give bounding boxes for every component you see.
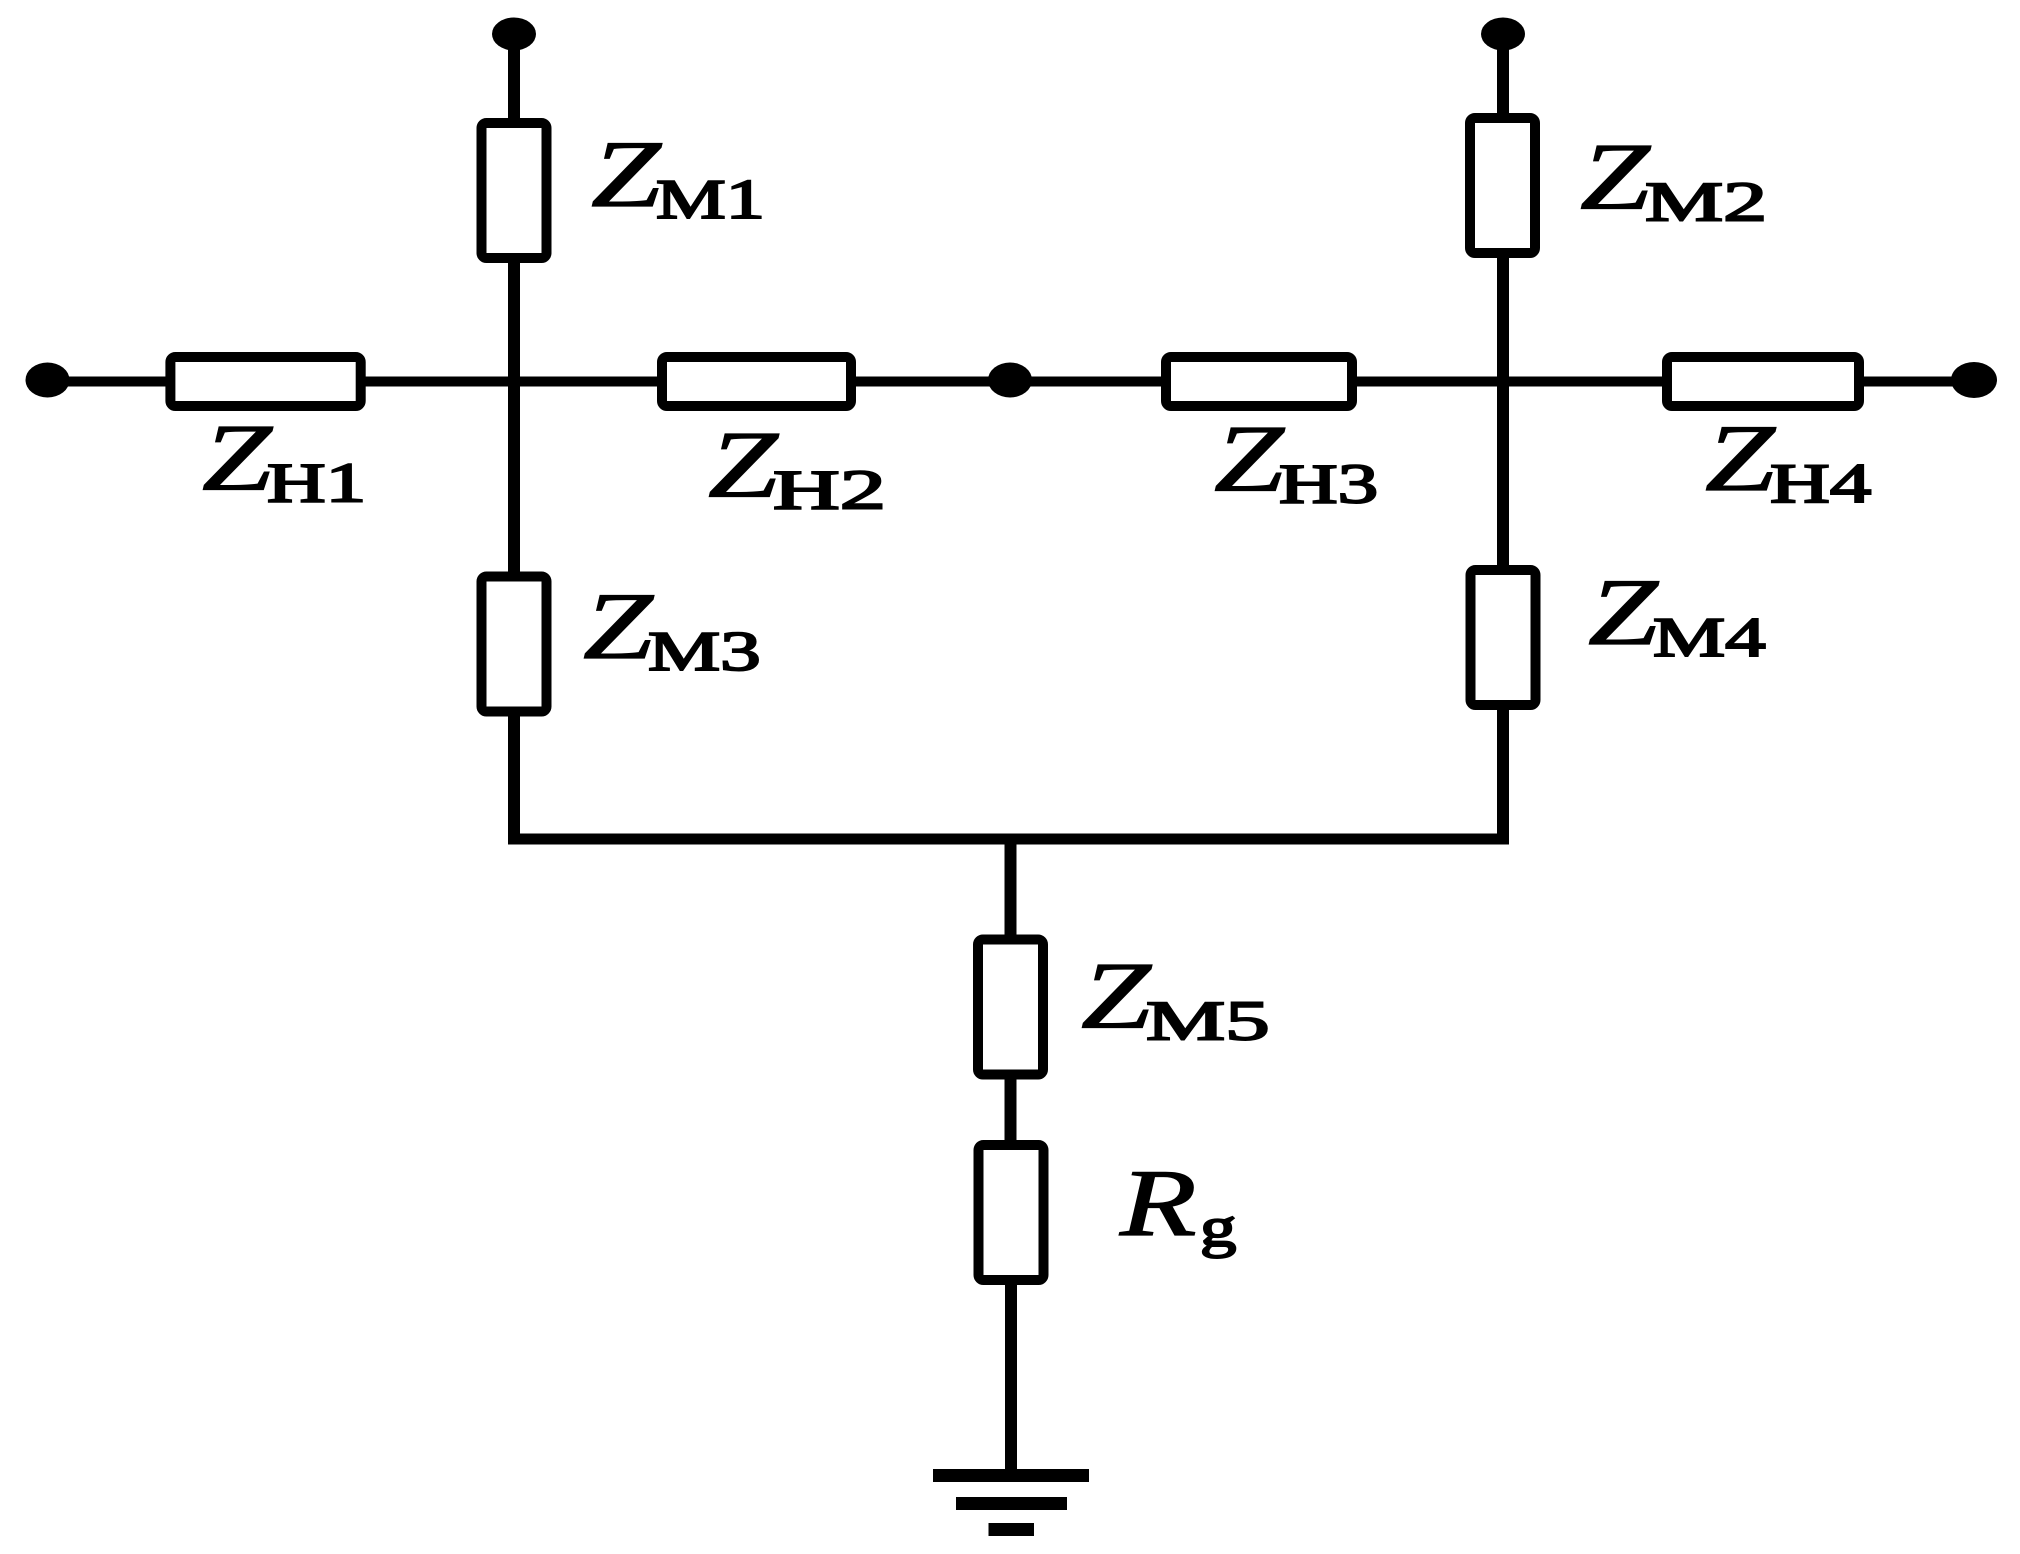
label ZM5 [1081, 944, 1152, 1049]
wire top stub to ZM2 [1497, 34, 1509, 118]
resistor ZM1 [482, 123, 547, 258]
svg-text:Z: Z [708, 413, 779, 518]
svg-text:M4: M4 [1653, 607, 1766, 669]
wire ZM5 to Rg [1005, 1075, 1017, 1145]
terminal node right [1951, 362, 1997, 398]
label ZM4 [1588, 560, 1659, 665]
svg-text:g: g [1200, 1197, 1236, 1259]
node middle between ZH2 and ZH3 [988, 363, 1032, 398]
svg-text:Z: Z [1081, 944, 1152, 1049]
resistor ZH1 [170, 357, 360, 406]
ground bar 1 [933, 1469, 1089, 1482]
svg-text:H1: H1 [267, 453, 366, 515]
wire bottom bus [508, 834, 1509, 845]
resistor Rg [979, 1145, 1044, 1280]
label ZH2 [708, 413, 779, 518]
svg-text:M1: M1 [656, 168, 765, 230]
wire bottom bus to ZM5 [1005, 839, 1017, 939]
wire ZM4 bottom to bottom bus [1497, 705, 1509, 844]
terminal node top of ZM2 [1481, 18, 1525, 51]
label ZM3 [583, 574, 654, 679]
terminal node left [26, 363, 70, 398]
wire vertical trunk at junction 2 [1497, 253, 1509, 570]
label ZH1 [202, 406, 273, 511]
label ZM2 [1580, 125, 1651, 230]
terminal node top of ZM1 [492, 18, 536, 51]
label Rg [1119, 1151, 1197, 1256]
resistor ZM2 [1470, 118, 1535, 253]
svg-text:R: R [1119, 1151, 1197, 1256]
label ZH4 [1705, 406, 1776, 511]
svg-text:H2: H2 [773, 459, 886, 521]
svg-text:Z: Z [1705, 406, 1776, 511]
svg-text:Z: Z [202, 406, 273, 511]
resistor ZH3 [1166, 357, 1352, 406]
svg-text:M5: M5 [1146, 990, 1270, 1052]
svg-text:Z: Z [1588, 560, 1659, 665]
wire ZM3 bottom to bottom bus [508, 711, 520, 844]
resistor ZM4 [1471, 570, 1536, 705]
resistor ZM5 [978, 940, 1043, 1075]
wire main horizontal bus [47, 377, 1974, 387]
svg-text:Z: Z [1580, 125, 1651, 230]
svg-text:Z: Z [1214, 407, 1285, 512]
label ZH3 [1214, 407, 1285, 512]
svg-text:M2: M2 [1645, 170, 1767, 232]
svg-text:M3: M3 [648, 621, 761, 683]
wire Rg to ground [1005, 1280, 1017, 1476]
resistor ZH2 [662, 357, 851, 406]
label ZM1 [591, 122, 662, 227]
svg-text:Z: Z [583, 574, 654, 679]
svg-text:H4: H4 [1770, 453, 1871, 515]
svg-text:H3: H3 [1279, 454, 1378, 516]
resistor ZM3 [482, 577, 547, 712]
ground bar 2 [956, 1497, 1067, 1510]
resistor ZH4 [1667, 357, 1859, 406]
ground bar 3 [989, 1523, 1035, 1536]
wire vertical trunk at junction 1 [508, 258, 520, 577]
svg-text:Z: Z [591, 122, 662, 227]
wire top stub to ZM1 [508, 34, 520, 123]
